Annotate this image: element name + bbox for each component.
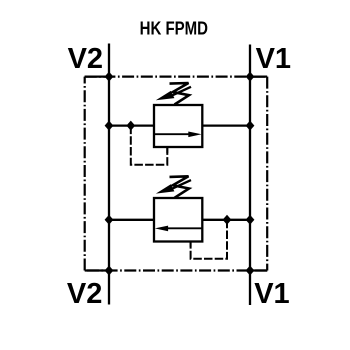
junction dot V1 x bottom rail (246, 266, 255, 276)
wire valve1 right connection (202, 124, 250, 126)
relief valve 2 pilot stub (190, 242, 192, 248)
junction dot V1 x valve1 connection (246, 121, 255, 131)
junction dot valve2 pilot branch (223, 215, 232, 225)
junction dot V2 x valve1 connection (105, 121, 114, 131)
wire V1 vertical line (249, 45, 251, 306)
junction dot V2 x bottom rail (105, 266, 114, 276)
relief valve 2 adjustment arrow (156, 180, 191, 194)
wire V2 vertical line (108, 44, 110, 305)
svg-text:V1: V1 (256, 43, 291, 75)
relief valve 1 pilot stub (166, 147, 168, 153)
relief valve 2 spring (170, 176, 190, 198)
junction dot V2 x top rail (105, 72, 114, 82)
relief valve 1 body (154, 105, 202, 147)
relief valve 2 body (154, 198, 202, 242)
wire valve2 right connection (202, 219, 250, 221)
relief valve 2 flow arrow (155, 226, 203, 232)
enclosure corner fill segments (85, 77, 268, 271)
relief valve 1 pilot line (dashed) (131, 126, 168, 165)
wire valve2 left connection (109, 219, 154, 221)
relief valve 1 spring (170, 83, 190, 105)
relief valve 1 flow arrow (154, 132, 202, 138)
junction dot V2 x valve2 connection (105, 215, 114, 225)
enclosure (dash-dot assembly boundary) (85, 77, 268, 271)
relief valve 1 adjustment arrow (156, 87, 191, 101)
junction dot V1 x top rail (246, 72, 255, 82)
junction dot valve1 pilot branch (126, 121, 135, 131)
svg-text:HK FPMD: HK FPMD (140, 18, 208, 39)
svg-text:V2: V2 (67, 278, 102, 310)
svg-text:V2: V2 (68, 43, 103, 75)
wire valve1 left connection (109, 124, 154, 126)
relief valve 2 pilot line (dashed) (191, 220, 227, 259)
svg-text:V1: V1 (254, 278, 289, 310)
junction dot V1 x valve2 connection (246, 215, 255, 225)
